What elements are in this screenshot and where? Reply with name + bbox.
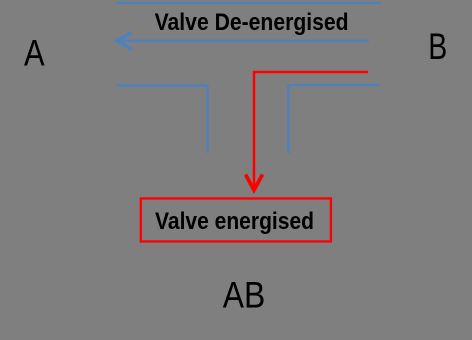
wire red energised path from B, elbow (254, 72, 368, 187)
box valve energised (red rectangle) (141, 198, 331, 241)
svg-text:B: B (428, 26, 447, 67)
svg-text:A: A (24, 33, 45, 74)
wire right blue elbow B branch (289, 85, 381, 153)
wire left blue elbow A branch (116, 85, 207, 153)
svg-text:AB: AB (223, 274, 265, 315)
svg-text:Valve energised: Valve energised (155, 208, 314, 235)
arrow energised flow (red), open arrowhead (246, 175, 263, 191)
arrow de-energised flow B to A (blue), shaft (118, 39, 370, 42)
arrow de-energised flow (blue), open arrowhead (117, 32, 132, 49)
svg-text:Valve De-energised: Valve De-energised (155, 9, 349, 36)
wire top blue supply line P (116, 2, 381, 4)
